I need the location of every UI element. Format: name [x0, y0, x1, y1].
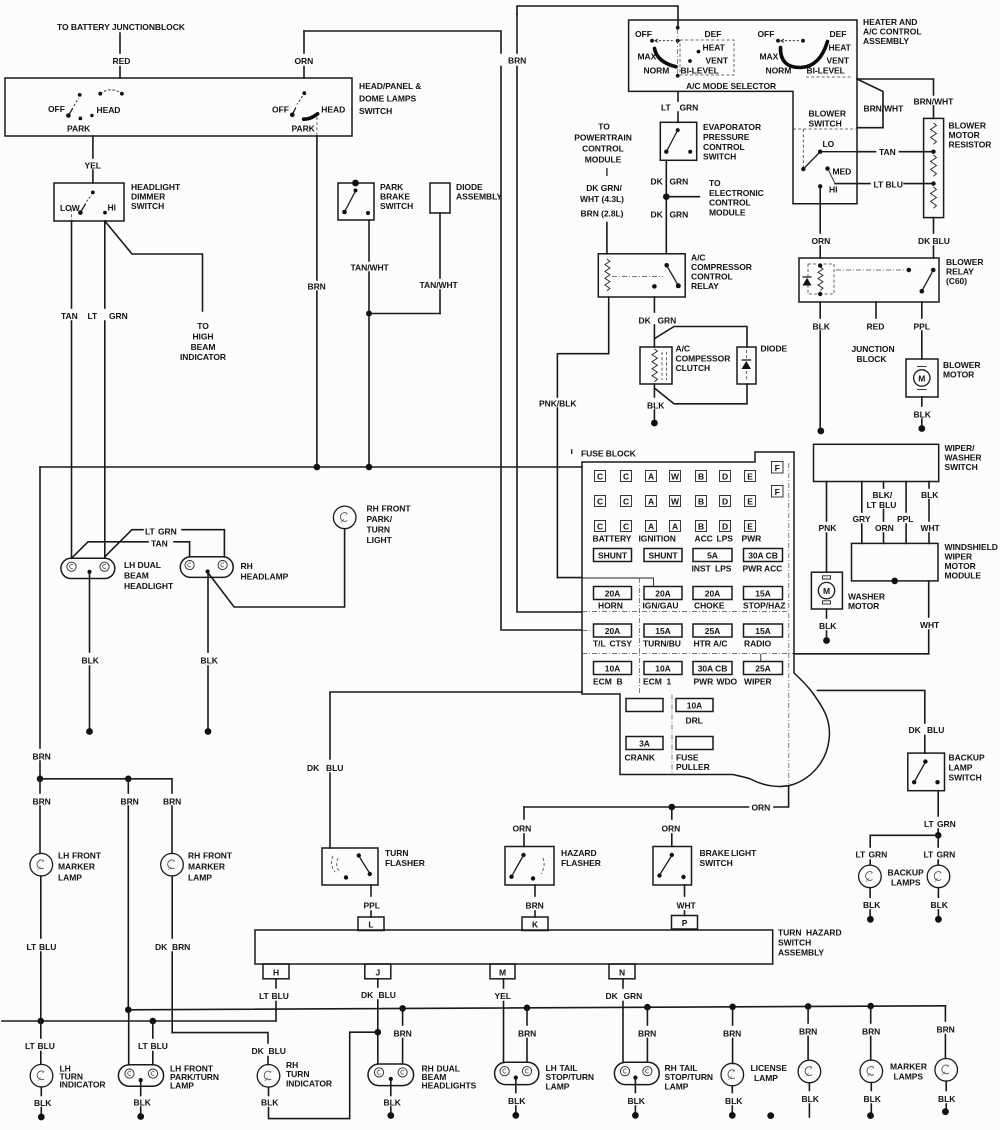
svg-text:H: H	[273, 967, 279, 977]
svg-text:TAN: TAN	[61, 311, 78, 321]
svg-text:HEAT: HEAT	[829, 43, 852, 53]
svg-text:RH: RH	[241, 561, 253, 571]
svg-text:LAMPS: LAMPS	[891, 878, 921, 888]
svg-text:PRESSURE: PRESSURE	[703, 132, 750, 142]
svg-text:MOTOR: MOTOR	[848, 601, 879, 611]
switch box: WIPER/WASHER SWITCH	[814, 444, 939, 481]
svg-text:YEL: YEL	[85, 161, 101, 171]
svg-text:BLK: BLK	[813, 322, 831, 332]
svg-text:FRONT: FRONT	[203, 851, 233, 861]
lamp: RH TURN INDICATOR	[257, 1065, 280, 1088]
svg-text:RH: RH	[188, 851, 200, 861]
wire ORN drop to hazard flasher	[523, 807, 525, 819]
svg-text:BRN: BRN	[937, 1025, 955, 1035]
svg-text:BLK: BLK	[647, 401, 665, 411]
svg-text:BRN: BRN	[799, 1027, 817, 1037]
wire BLK (blower relay ground side)	[819, 302, 821, 318]
relay: A/C COMPRESSOR CONTROL RELAY	[598, 254, 685, 297]
svg-text:HEADLIGHT: HEADLIGHT	[131, 182, 181, 192]
wire BLK (blower motor ground)	[921, 397, 923, 406]
svg-text:C: C	[597, 472, 603, 482]
svg-text:LIGHT: LIGHT	[731, 848, 757, 858]
svg-text:MOTOR: MOTOR	[943, 370, 974, 380]
wire DK GRN (connector N to RH tail lamp)	[622, 979, 624, 988]
svg-text:LPS: LPS	[715, 564, 732, 574]
svg-text:SWITCH: SWITCH	[945, 462, 978, 472]
svg-text:B: B	[698, 497, 704, 507]
svg-text:D: D	[722, 497, 728, 507]
wire BLK (RH headlamp ground)	[207, 574, 209, 652]
svg-text:HEAD/PANEL &: HEAD/PANEL &	[359, 81, 421, 91]
svg-text:MODULE: MODULE	[945, 571, 982, 581]
svg-text:LOW: LOW	[60, 203, 81, 213]
svg-text:LT: LT	[145, 527, 156, 537]
svg-text:WHT: WHT	[920, 620, 940, 630]
head switch left rotary contacts	[48, 90, 124, 134]
wire: left BRN riser (x=40)	[39, 467, 41, 748]
svg-text:CRANK: CRANK	[625, 753, 656, 763]
wire: dimmer HI to high beam indicator	[105, 221, 203, 311]
svg-text:DIMMER: DIMMER	[131, 192, 165, 202]
wire PPL (relay to blower motor)	[921, 302, 923, 318]
svg-text:BRN: BRN	[518, 1029, 536, 1039]
svg-text:JUNCTION: JUNCTION	[852, 344, 895, 354]
svg-text:HI: HI	[108, 203, 116, 213]
svg-text:HEAT: HEAT	[703, 43, 726, 53]
svg-text:GRN: GRN	[109, 311, 128, 321]
wire BRN (bus1 to RH tail)	[646, 1007, 648, 1025]
wire BLK (right marker ground)	[945, 1081, 947, 1090]
svg-text:B: B	[698, 522, 704, 532]
motor: BLOWER MOTOR	[906, 359, 938, 397]
svg-text:MARKER: MARKER	[188, 862, 225, 872]
svg-text:BLK: BLK	[134, 1098, 152, 1108]
svg-text:DK BLU: DK BLU	[918, 236, 950, 246]
svg-text:WASHER: WASHER	[848, 592, 885, 602]
svg-text:MED: MED	[833, 167, 852, 177]
svg-text:(C60): (C60)	[946, 276, 967, 286]
svg-text:ASSEMBLY: ASSEMBLY	[863, 36, 909, 46]
motor: WASHER MOTOR	[811, 572, 842, 609]
fuse row: T/L CTSY TURN/BU HTR A/C RADIO	[594, 624, 632, 637]
svg-text:A/C CONTROL: A/C CONTROL	[863, 27, 921, 37]
svg-text:RED: RED	[113, 56, 131, 66]
svg-text:ECM: ECM	[643, 677, 662, 687]
svg-text:DIODE: DIODE	[761, 344, 788, 354]
fuse cavity letters row 2	[595, 486, 784, 507]
wire LT GRN right backup lamp	[937, 835, 939, 847]
svg-text:HAZARD: HAZARD	[561, 848, 597, 858]
svg-text:INDICATOR: INDICATOR	[286, 1079, 332, 1089]
wire DK BLU (connector J to RH dual beam headlights)	[377, 979, 379, 987]
svg-text:A/C: A/C	[713, 639, 728, 649]
svg-text:LAMP: LAMP	[949, 763, 973, 773]
svg-text:BRAKE: BRAKE	[380, 192, 410, 202]
wire BLK (LH tail ground)	[515, 1080, 517, 1093]
svg-text:GRN: GRN	[670, 210, 689, 220]
svg-text:RESISTOR: RESISTOR	[949, 140, 992, 150]
svg-text:A: A	[648, 497, 654, 507]
svg-text:INDICATOR: INDICATOR	[60, 1080, 106, 1090]
wire DK GRN (relay to compressor clutch)	[653, 297, 655, 312]
svg-text:ECM: ECM	[593, 677, 612, 687]
svg-text:VENT: VENT	[706, 56, 729, 66]
wire BRN drop LH marker	[39, 779, 41, 793]
svg-text:HEADLIGHTS: HEADLIGHTS	[422, 1081, 477, 1091]
svg-text:LT: LT	[25, 1041, 36, 1051]
svg-text:LT: LT	[259, 991, 270, 1001]
svg-text:P: P	[682, 918, 688, 928]
diode: DIODE ASSEMBLY	[430, 183, 450, 213]
lamp: RH DUAL BEAM HEADLIGHTS	[368, 1064, 414, 1086]
connector N	[609, 964, 635, 979]
svg-text:OFF: OFF	[48, 104, 65, 114]
svg-text:HEADLIGHT: HEADLIGHT	[124, 581, 174, 591]
svg-text:WINDSHIELD: WINDSHIELD	[945, 542, 998, 552]
svg-text:PARK: PARK	[67, 124, 91, 134]
svg-text:DK: DK	[252, 1046, 265, 1056]
lamp: BACKUP LAMP RH	[927, 865, 950, 888]
svg-text:BLOWER: BLOWER	[943, 360, 980, 370]
svg-text:PWR: PWR	[743, 564, 763, 574]
svg-text:MAX: MAX	[760, 52, 779, 62]
svg-text:MOTOR: MOTOR	[945, 561, 976, 571]
wire BLK (LH backup ground)	[869, 888, 871, 898]
lamp: LH FRONT PARK/TURN LAMP	[118, 1065, 163, 1086]
svg-text:BLK: BLK	[863, 900, 881, 910]
wire LT GRN (selector to evaporator switch)	[677, 91, 679, 101]
lamp: RH HEADLAMP	[180, 557, 233, 578]
svg-text:SWITCH: SWITCH	[131, 201, 164, 211]
svg-text:CLUTCH: CLUTCH	[676, 363, 711, 373]
svg-text:ELECTRONIC: ELECTRONIC	[709, 188, 764, 198]
svg-text:PWR: PWR	[694, 677, 714, 687]
wire BRN (hazard flasher to connector K)	[534, 885, 536, 896]
lamp: RH TAIL STOP/TURN LAMP	[614, 1062, 659, 1084]
flasher: HAZARD FLASHER	[505, 847, 554, 886]
svg-text:BLU: BLU	[326, 763, 343, 773]
wire BLK / WHT	[928, 482, 930, 489]
svg-text:WHT: WHT	[677, 901, 697, 911]
svg-text:LIGHT: LIGHT	[367, 535, 393, 545]
svg-text:COMPESSOR: COMPESSOR	[676, 354, 731, 364]
wire: orange bus to turn flasher (y=692)	[330, 692, 582, 759]
svg-text:10A: 10A	[655, 664, 670, 674]
svg-text:3A: 3A	[639, 739, 650, 749]
svg-text:BEAM: BEAM	[191, 342, 216, 352]
svg-text:BLK: BLK	[938, 1094, 956, 1104]
svg-text:25A: 25A	[755, 664, 770, 674]
svg-text:BRN: BRN	[308, 282, 326, 292]
svg-text:LAMPS: LAMPS	[894, 1072, 924, 1082]
svg-text:BRN: BRN	[121, 797, 139, 807]
wire YEL (connector M to LH tail lamp)	[503, 979, 505, 988]
svg-text:DK: DK	[639, 315, 652, 325]
svg-text:GRN: GRN	[670, 176, 689, 186]
svg-text:MODULE: MODULE	[709, 208, 746, 218]
wire BRN distribution header (y=779)	[40, 779, 172, 793]
svg-text:CTSY: CTSY	[610, 639, 633, 649]
svg-text:INDICATOR: INDICATOR	[180, 352, 226, 362]
svg-text:BRN: BRN	[508, 56, 526, 66]
switch: EVAPORATOR PRESSURE CONTROL SWITCH	[660, 122, 696, 160]
svg-text:ASSEMBLY: ASSEMBLY	[456, 192, 502, 202]
svg-text:M: M	[823, 586, 830, 596]
wire BRN/WHT #1 (feed to blower switch)	[857, 79, 883, 128]
wire WHT (brake switch to connector P)	[684, 885, 686, 896]
svg-text:CONTROL: CONTROL	[691, 272, 733, 282]
svg-text:A: A	[648, 522, 654, 532]
coil: A/C COMPESSOR CLUTCH	[640, 347, 672, 384]
svg-text:HEADLAMP: HEADLAMP	[241, 572, 289, 582]
svg-text:BLU: BLU	[879, 500, 896, 510]
lamp: marker lamp (right)	[935, 1059, 958, 1082]
svg-text:5A: 5A	[707, 551, 718, 561]
svg-text:BACKUP: BACKUP	[949, 753, 985, 763]
svg-text:ORN: ORN	[875, 523, 894, 533]
connector P	[672, 916, 698, 930]
svg-text:BI-LEVEL: BI-LEVEL	[807, 66, 845, 76]
svg-text:FUSE BLOCK: FUSE BLOCK	[581, 449, 637, 459]
svg-text:LT: LT	[88, 311, 99, 321]
wire TAN (dimmer low to LH headlight)	[71, 221, 73, 308]
fuse block outline	[582, 452, 829, 786]
svg-text:N: N	[619, 967, 625, 977]
svg-text:DRL: DRL	[686, 716, 703, 726]
svg-text:BLOWER: BLOWER	[809, 109, 846, 119]
wire GRY	[861, 482, 863, 513]
svg-text:TURN: TURN	[385, 848, 408, 858]
svg-text:HTR: HTR	[694, 639, 711, 649]
svg-text:ORN: ORN	[662, 824, 681, 834]
svg-text:TAN/WHT: TAN/WHT	[351, 263, 390, 273]
wire PNK (wiper switch to washer motor)	[826, 482, 828, 522]
svg-text:LAMP: LAMP	[58, 873, 82, 883]
lamp: MARKER LAMPS	[860, 1060, 883, 1083]
box: heater and A/C control assembly	[629, 20, 857, 204]
svg-text:GRN: GRN	[158, 527, 177, 537]
svg-text:DK: DK	[361, 990, 374, 1000]
svg-text:DOME LAMPS: DOME LAMPS	[359, 94, 416, 104]
svg-text:GRN: GRN	[869, 850, 888, 860]
fuse row: ECM B ECM 1 PWR WDO WIPER	[594, 662, 632, 675]
svg-text:DK GRN/: DK GRN/	[586, 183, 622, 193]
svg-text:LAMP: LAMP	[665, 1082, 689, 1092]
svg-text:BLK: BLK	[864, 1094, 882, 1104]
svg-text:OFF: OFF	[635, 29, 652, 39]
svg-text:A/C: A/C	[676, 344, 691, 354]
svg-text:GRN: GRN	[658, 315, 677, 325]
svg-text:PNK: PNK	[819, 523, 838, 533]
svg-text:LICENSE: LICENSE	[751, 1063, 788, 1073]
svg-text:30A CB: 30A CB	[698, 664, 728, 674]
svg-text:HIGH: HIGH	[192, 332, 213, 342]
svg-text:FLASHER: FLASHER	[385, 858, 425, 868]
svg-text:PNK/BLK: PNK/BLK	[539, 399, 577, 409]
svg-text:RH: RH	[367, 504, 379, 514]
connector L	[358, 917, 384, 931]
wire BRN (bus1 to LH tail)	[526, 1008, 528, 1025]
wire LT GRN branch to left backup lamp	[870, 835, 938, 847]
svg-text:1: 1	[667, 677, 672, 687]
svg-text:LT BLU: LT BLU	[874, 180, 903, 190]
wire BLK (RH turn indicator ground loop to J feed)	[268, 1087, 270, 1095]
wire TAN/WHT (park brake switch down)	[368, 220, 370, 261]
resistor: BLOWER MOTOR RESISTOR	[924, 118, 944, 217]
svg-text:BACKUP: BACKUP	[888, 868, 924, 878]
wire ORN junction + drop to brake light switch	[669, 804, 676, 811]
svg-text:20A: 20A	[605, 626, 620, 636]
svg-text:BRN: BRN	[172, 942, 190, 952]
svg-text:DK: DK	[307, 763, 320, 773]
svg-text:LPS: LPS	[717, 534, 734, 544]
svg-text:BLU: BLU	[379, 990, 396, 1000]
lamp: LH FRONT MARKER LAMP	[30, 853, 53, 876]
svg-text:E: E	[747, 522, 753, 532]
svg-text:B: B	[617, 677, 623, 687]
svg-text:COMPRESSOR: COMPRESSOR	[691, 262, 752, 272]
svg-text:OFF: OFF	[272, 104, 289, 114]
connector M	[490, 964, 515, 979]
svg-text:LAMP: LAMP	[170, 1081, 194, 1091]
svg-text:BRN: BRN	[862, 1027, 880, 1037]
lamp: LICENSE LAMP	[721, 1063, 744, 1086]
wire LT GRN (backup switch down)	[937, 791, 939, 816]
svg-text:F: F	[775, 487, 780, 497]
wire BLK (marker ground)	[870, 1083, 872, 1091]
svg-text:10A: 10A	[687, 701, 702, 711]
fuse block internal construction lines	[788, 463, 790, 784]
wire LT BLU (bus2 to LH turn indicator)	[40, 1021, 42, 1038]
svg-text:A: A	[672, 522, 678, 532]
svg-text:J: J	[375, 967, 380, 977]
svg-text:WIPER: WIPER	[744, 677, 772, 687]
svg-text:FRONT: FRONT	[72, 851, 102, 861]
wire BLK (lamp 4 ground stub)	[808, 1083, 810, 1091]
svg-text:LT: LT	[661, 103, 672, 113]
svg-text:M: M	[918, 374, 925, 384]
svg-text:D: D	[722, 522, 728, 532]
svg-text:ORN: ORN	[812, 236, 831, 246]
svg-text:BLK/: BLK/	[873, 490, 893, 500]
svg-text:BLK: BLK	[34, 1098, 52, 1108]
svg-text:BLU: BLU	[269, 1046, 286, 1056]
svg-text:BRN: BRN	[723, 1029, 741, 1039]
wire LT BLU (connector H down to bus 2)	[275, 979, 277, 988]
wire TAN branch to RH headlamp	[72, 542, 149, 559]
SHUNT fuses row	[594, 549, 632, 562]
svg-text:WDO: WDO	[717, 677, 738, 687]
svg-text:BRN: BRN	[638, 1029, 656, 1039]
wire LT BLU (LH marker to bottom bus)	[40, 876, 42, 938]
wire BRN (bus1 to RH dual beam)	[402, 1008, 404, 1025]
wire BLK (washer motor ground)	[826, 609, 828, 618]
svg-text:HEAD: HEAD	[97, 105, 121, 115]
wire BRN long vertical (x501) to fuse block T/L CTSY	[501, 67, 582, 631]
svg-text:STOP/HAZ: STOP/HAZ	[743, 601, 785, 611]
svg-text:MARKER: MARKER	[58, 862, 95, 872]
svg-text:BLK: BLK	[802, 1094, 820, 1104]
svg-text:SHUNT: SHUNT	[598, 551, 628, 561]
svg-text:C: C	[623, 497, 629, 507]
lamp: LH TURN INDICATOR	[30, 1064, 53, 1087]
wire YEL (head switch to dimmer)	[92, 136, 94, 158]
svg-text:15A: 15A	[655, 626, 670, 636]
fuse cavity letters row 1	[595, 462, 784, 482]
svg-text:BEAM: BEAM	[124, 571, 149, 581]
svg-text:RED: RED	[867, 322, 885, 332]
svg-text:BLK: BLK	[921, 490, 939, 500]
svg-text:PULLER: PULLER	[676, 762, 710, 772]
svg-text:BLOWER: BLOWER	[949, 121, 986, 131]
head switch right rotary contacts	[272, 91, 345, 136]
wire BLK (LH turn indicator ground)	[40, 1087, 42, 1096]
diode (clutch suppression diode)	[737, 347, 756, 384]
wire ORN (to head switch, from top bus)	[303, 31, 305, 53]
svg-text:E: E	[747, 497, 753, 507]
svg-text:D: D	[722, 472, 728, 482]
svg-text:BLOWER: BLOWER	[946, 257, 983, 267]
A/C mode selector left dial	[635, 26, 734, 78]
lamp: LH TAIL STOP/TURN LAMP	[495, 1062, 539, 1084]
svg-text:DK: DK	[651, 210, 664, 220]
svg-text:LT: LT	[924, 850, 935, 860]
svg-text:A/C: A/C	[691, 253, 706, 263]
svg-text:A/C MODE SELECTOR: A/C MODE SELECTOR	[686, 81, 776, 91]
svg-text:BLK: BLK	[82, 656, 100, 666]
wire BLK (RH tail ground)	[634, 1080, 636, 1093]
svg-text:CONTROL: CONTROL	[582, 144, 624, 154]
svg-text:WHT (4.3L): WHT (4.3L)	[580, 194, 624, 204]
svg-text:TO: TO	[197, 321, 209, 331]
wire ORN (blower HI down to relay)	[819, 186, 821, 233]
wire LT GRN (dimmer to LH headlight high)	[104, 221, 106, 308]
svg-text:W: W	[671, 497, 680, 507]
wire branch to diode	[655, 327, 747, 348]
svg-text:TO BATTERY JUNCTIONBLOCK: TO BATTERY JUNCTIONBLOCK	[57, 22, 186, 32]
svg-text:BI-LEVEL: BI-LEVEL	[681, 66, 719, 76]
svg-text:15A: 15A	[755, 626, 770, 636]
svg-text:VENT: VENT	[827, 56, 850, 66]
svg-text:20A: 20A	[705, 589, 720, 599]
svg-text:DUAL: DUAL	[138, 560, 161, 570]
flasher: TURN FLASHER	[322, 848, 378, 885]
svg-text:MODULE: MODULE	[585, 155, 622, 165]
svg-text:PARK: PARK	[292, 123, 316, 133]
svg-text:OFF: OFF	[758, 29, 775, 39]
wire BLK (license ground)	[731, 1086, 733, 1093]
box: TURN HAZARD SWITCH ASSEMBLY	[255, 930, 773, 964]
svg-text:RELAY: RELAY	[946, 267, 974, 277]
svg-text:PARK: PARK	[380, 182, 404, 192]
svg-text:M: M	[499, 967, 506, 977]
svg-text:BLU: BLU	[927, 725, 944, 735]
svg-text:DK: DK	[909, 725, 922, 735]
svg-text:SWITCH: SWITCH	[700, 858, 733, 868]
svg-text:DK: DK	[651, 176, 664, 186]
lamp: marker lamp (center)	[798, 1060, 821, 1083]
wire WHT (fuse block to module)	[794, 653, 929, 655]
svg-text:PPL: PPL	[897, 514, 913, 524]
svg-text:BLU: BLU	[272, 991, 289, 1001]
lamp: RH FRONT MARKER LAMP	[161, 853, 184, 876]
svg-text:EVAPORATOR: EVAPORATOR	[703, 122, 761, 132]
switch box: HEAD/PANEL & DOME LAMPS SWITCH	[5, 78, 352, 136]
wire BLK/LT BLU - ORN	[883, 482, 885, 489]
A/C mode selector right dial	[758, 29, 853, 77]
svg-text:GRN: GRN	[937, 819, 956, 829]
lamp: BACKUP LAMP LH	[859, 865, 882, 888]
